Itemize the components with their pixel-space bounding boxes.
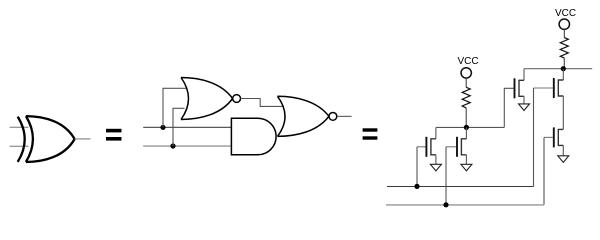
XOR gate U1	[18, 116, 75, 162]
svg-text:VCC: VCC	[555, 8, 576, 19]
wire: input line A (right)	[387, 186, 534, 188]
wire: VCC1 to R1	[465, 78, 467, 87]
wire: input A riser to Q1 gate	[416, 147, 418, 187]
VCC terminal circle 1	[461, 68, 471, 78]
ground symbol G2	[461, 164, 472, 171]
wire: VCC2 to R2	[563, 30, 565, 38]
transistor Q4	[534, 78, 564, 98]
transistor Q2	[446, 137, 466, 157]
wire: input line B (right)	[386, 204, 544, 206]
transistor Q5	[544, 127, 563, 147]
NOR gate U4	[278, 96, 337, 136]
NOR gate U2	[181, 78, 241, 120]
wire: XOR output stub	[75, 138, 91, 140]
node N1 dot	[464, 125, 469, 130]
wire: node N1 rail	[436, 126, 504, 128]
wire: A to NOR1 upper input	[163, 88, 187, 127]
wire: Q3 drain to output rail	[523, 69, 525, 81]
resistor R1	[462, 87, 470, 108]
wire: Q1 drain riser	[435, 127, 437, 138]
equals sign 1	[106, 129, 122, 141]
wire: input B riser to Q5 gate	[543, 137, 545, 204]
wire: Q5 source to ground	[562, 145, 564, 155]
wire: Q1 source to ground	[435, 155, 437, 165]
wire: Q3 source to ground	[523, 96, 525, 104]
wire: XOR input B stub	[10, 145, 29, 147]
wire: Q4 source to Q5 drain	[562, 96, 564, 129]
wire: R1 to node N1	[465, 108, 467, 128]
wire: N1 to Q3 gate	[504, 88, 513, 127]
wire: R2 to node N2	[563, 58, 565, 69]
wire: Q2 source to ground	[465, 155, 467, 165]
wire: input B riser to Q2 gate	[445, 147, 447, 205]
node: input A dot	[414, 184, 419, 189]
node: junction dot A	[160, 125, 165, 130]
resistor R2	[560, 38, 568, 59]
node: input B dot	[443, 202, 448, 207]
wire: input A riser to Q4 gate	[533, 88, 535, 187]
wire: B to NOR1 lower input	[173, 108, 185, 146]
wire: middle input line B	[143, 145, 231, 147]
transistor Q1	[417, 137, 436, 157]
node N2 dot	[561, 66, 566, 71]
wire: NOR3 output stub	[337, 115, 352, 117]
node: junction dot B	[170, 143, 175, 148]
ground symbol G3	[519, 104, 530, 111]
wire: Q2 drain riser	[465, 127, 467, 138]
svg-text:VCC: VCC	[457, 56, 478, 67]
ground symbol G5	[558, 156, 569, 163]
transistor Q3	[515, 78, 525, 98]
ground symbol G1	[430, 164, 441, 171]
equals sign 2	[363, 128, 378, 139]
AND gate U3	[231, 118, 276, 155]
VCC terminal circle 2	[559, 19, 569, 29]
wire: middle input line A	[143, 126, 231, 128]
wire: NOR1 output to NOR3 upper input	[241, 99, 284, 107]
wire: XOR input A stub	[10, 126, 29, 128]
wire: output rail	[524, 68, 592, 70]
wire: Q4 drain riser	[562, 69, 564, 80]
